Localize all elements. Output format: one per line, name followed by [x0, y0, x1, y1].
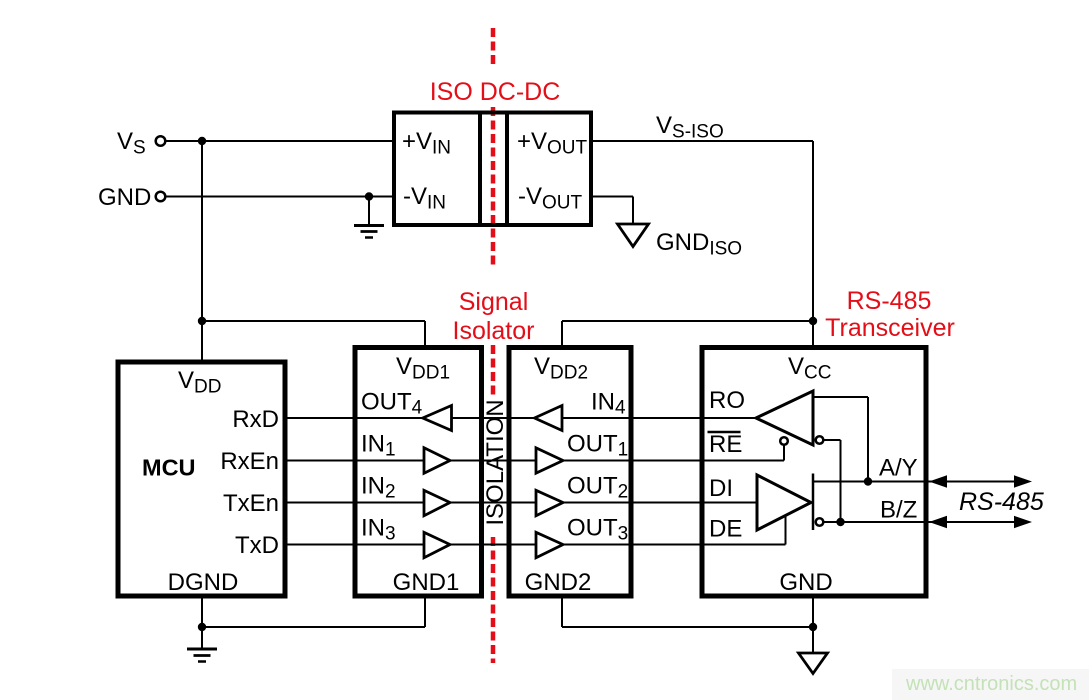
svg-text:RxEn: RxEn: [220, 448, 279, 475]
svg-text:Isolator: Isolator: [453, 317, 535, 345]
svg-text:A/Y: A/Y: [879, 455, 918, 482]
svg-text:RS-485: RS-485: [847, 287, 932, 315]
svg-text:ISO DC-DC: ISO DC-DC: [430, 78, 561, 106]
svg-text:GND2: GND2: [525, 569, 592, 596]
svg-text:DI: DI: [709, 475, 733, 502]
svg-text:Signal: Signal: [459, 288, 529, 316]
svg-text:www.cntronics.com: www.cntronics.com: [905, 673, 1077, 695]
svg-text:GND: GND: [98, 184, 151, 211]
svg-text:GND: GND: [779, 569, 832, 596]
svg-text:RE: RE: [709, 431, 742, 458]
svg-text:TxEn: TxEn: [223, 490, 279, 517]
svg-text:B/Z: B/Z: [880, 497, 917, 524]
svg-text:DE: DE: [709, 516, 742, 543]
svg-text:TxD: TxD: [235, 532, 279, 559]
svg-text:RS-485: RS-485: [959, 488, 1044, 516]
svg-text:DGND: DGND: [168, 569, 239, 596]
svg-text:GND1: GND1: [393, 569, 460, 596]
svg-text:RO: RO: [709, 387, 745, 414]
svg-text:RxD: RxD: [232, 406, 279, 433]
svg-text:ISOLATION: ISOLATION: [482, 399, 509, 525]
svg-text:Transceiver: Transceiver: [825, 314, 955, 342]
svg-text:MCU: MCU: [142, 455, 196, 481]
